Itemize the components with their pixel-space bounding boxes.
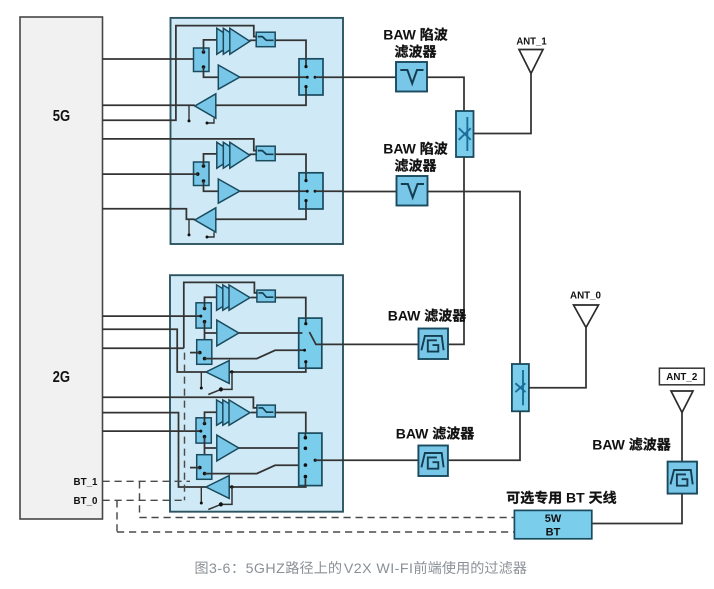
svg-text:BT_0: BT_0	[74, 496, 99, 507]
dashed riser BT_1 to BT box	[139, 481, 141, 517]
wire antenna switch TX out	[323, 190, 343, 192]
dashed wire BT_0 feed to 5W box	[117, 531, 514, 533]
wire antenna switch RX to LNA	[216, 95, 306, 105]
svg-text:BT_1: BT_1	[74, 477, 99, 488]
svg-text:ANT_0: ANT_0	[570, 290, 601, 301]
2G FEM module box U2	[170, 275, 343, 512]
svg-text:ANT_2: ANT_2	[666, 372, 697, 383]
wire switch to PA input	[204, 154, 218, 166]
svg-text:BAW: BAW	[383, 27, 420, 43]
power amplifier PA (3-stage)	[217, 142, 237, 168]
2G PA input switch upper	[196, 303, 211, 328]
BAW notch filter FL2	[397, 176, 428, 206]
2G PA input switch upper	[196, 418, 211, 443]
LNA amplifier	[195, 208, 216, 232]
wire LNA to antenna switch RX	[229, 368, 306, 372]
antenna ANT_2 label box	[659, 368, 704, 385]
wire bypass switch to antenna switch	[275, 40, 306, 59]
wire ANT1 switch lower to BAW filter 1	[448, 157, 464, 344]
svg-text:BAW: BAW	[396, 425, 433, 441]
wire switch to driver amp	[204, 67, 219, 77]
driver amplifier	[218, 65, 240, 89]
wire 5G-A to notch filter 1	[343, 76, 396, 78]
wire switch to PA input	[204, 40, 218, 52]
wire PA out to bypass switch	[251, 297, 257, 299]
wire 2G bypass-A with riser	[103, 347, 184, 349]
LNA amplifier	[195, 94, 216, 118]
svg-text:BAW: BAW	[388, 308, 425, 324]
wire antenna switch RX to LNA	[216, 209, 306, 219]
bias stub with contact	[208, 118, 214, 123]
wire ANT0 switch to antenna	[529, 328, 586, 388]
wire 5G bypass-B rail	[103, 139, 257, 151]
wire PA out to bypass switch	[250, 39, 257, 41]
control switch lower	[197, 340, 212, 365]
antenna switch ANT0 (SPDT)	[512, 364, 529, 411]
wire cross-feed to antenna switch	[205, 465, 305, 473]
bias tail and contact lever	[223, 372, 232, 389]
2G driver amplifier	[217, 435, 239, 461]
wire control stub	[190, 467, 200, 469]
2G power amplifier (3-stage)	[217, 400, 238, 425]
dashed wire BT_0	[103, 499, 187, 501]
svg-text:5W: 5W	[545, 513, 562, 525]
wire antenna switch TX out	[323, 76, 343, 78]
antenna switch SP3T	[299, 173, 323, 209]
2G power amplifier (3-stage)	[217, 285, 238, 310]
svg-text:2G: 2G	[53, 369, 70, 386]
driver amplifier	[218, 179, 240, 203]
wire driver amp to antenna switch	[239, 447, 305, 449]
wire 2G-B to BAW filter 2	[343, 459, 419, 461]
5G group B circuits	[0, 0, 1, 1]
wire driver amp to antenna switch	[239, 332, 299, 334]
wire switch to PA input	[205, 297, 218, 308]
figure caption	[196, 562, 208, 574]
wire bypass switch to antenna switch	[275, 298, 306, 319]
dashed control riser in 2G module	[184, 353, 186, 501]
wire 5G-B to notch filter 2	[343, 191, 397, 193]
BAW notch filter FL1	[396, 62, 427, 92]
label BAW notch filter 2 line2	[395, 159, 436, 172]
wire 5G TX-A input	[103, 58, 194, 60]
ground stub with contact	[188, 105, 190, 119]
wire to driver amp	[204, 437, 206, 460]
dashed wire BT_1 feed to 5W box	[140, 517, 515, 519]
wire 5G bypass-A with riser	[103, 26, 257, 121]
wire control stub	[190, 352, 200, 354]
antenna switch SP3T	[299, 59, 323, 95]
wire 5G RX-B with jog	[103, 209, 195, 220]
ground stub with contact	[200, 372, 202, 387]
2G LNA amplifier	[206, 361, 229, 384]
label optional BT antenna	[507, 491, 561, 504]
transceiver block 5G/2G	[20, 17, 103, 519]
svg-text:5GHZ: 5GHZ	[246, 561, 286, 577]
wire 2G-A to BAW filter 1	[343, 343, 419, 345]
wire 5G TX-B input	[103, 173, 198, 175]
wire ANT1 switch to antenna	[474, 74, 532, 134]
wire PA out to bypass switch	[250, 153, 257, 155]
2G group A circuits	[0, 0, 1, 1]
wire PA out to bypass switch	[251, 412, 257, 414]
wire driver amp to antenna switch	[240, 76, 299, 78]
BAW filter FL4	[418, 446, 448, 477]
dashed wire BT_1	[103, 480, 191, 482]
svg-text:5G: 5G	[53, 108, 70, 125]
2G LNA amplifier	[206, 476, 229, 499]
ground stub with contact	[188, 219, 190, 233]
wire notch filter 2 to ANT0 switch	[428, 192, 521, 365]
input switch SWA	[194, 48, 210, 72]
wire 5G RX-A output	[103, 104, 195, 106]
wire switch to PA input	[205, 412, 218, 423]
wire cross-feed to antenna switch	[205, 350, 299, 358]
wire ANT0 switch lower to BAW filter 2	[448, 411, 520, 460]
dashed riser BT_0 to BT box	[116, 500, 118, 532]
wire 2G RX-B with jog	[103, 413, 207, 487]
wire input contact	[196, 315, 200, 317]
ground stub with contact	[200, 487, 202, 502]
BT antenna box 5W/BT	[514, 510, 591, 538]
svg-text:BT: BT	[546, 526, 561, 538]
wire 2G TX-A input	[103, 315, 197, 317]
wire 2G RX-A with jog	[103, 329, 207, 372]
5G FEM module box U1	[171, 18, 344, 244]
wire bypass switch to antenna switch	[275, 413, 306, 434]
input switch SWB	[194, 162, 210, 186]
BAW filter FL3	[419, 329, 449, 360]
wire ANT_2 to BAW filter 3	[681, 413, 683, 462]
2G driver amplifier	[217, 320, 239, 346]
BAW filter FL5	[668, 462, 697, 494]
wire to driver amp	[204, 322, 206, 345]
wire input contact	[196, 430, 200, 432]
bypass switch box	[257, 405, 275, 417]
svg-text:BAW: BAW	[592, 436, 629, 452]
wire BAW filter 3 to BT antenna box	[592, 494, 682, 524]
svg-text:BAW: BAW	[383, 141, 420, 157]
bypass switch box	[256, 146, 275, 161]
power amplifier PA (3-stage)	[217, 28, 237, 54]
wire driver amp to antenna switch	[240, 190, 299, 192]
svg-text:3-6: 3-6	[209, 561, 231, 577]
2G group B circuits	[0, 0, 1, 1]
bias tail and contact lever	[223, 487, 232, 504]
bias stub with contact	[208, 232, 214, 237]
label BAW notch filter 1 line2	[395, 45, 436, 58]
svg-text:V2X WI-FI: V2X WI-FI	[344, 561, 413, 577]
wire 2G bypass-B rail	[103, 397, 257, 408]
wire switch to driver amp	[204, 181, 219, 191]
bypass switch box	[256, 32, 275, 47]
wire bypass switch to antenna switch	[275, 154, 306, 173]
wire LNA to antenna switch RX	[229, 483, 306, 487]
antenna switch ANT1 (SPDT)	[456, 111, 474, 157]
2G antenna switch A	[299, 318, 322, 368]
svg-text:ANT_1: ANT_1	[516, 37, 547, 48]
wire 2G TX-B input	[103, 430, 197, 432]
5G group A circuits	[0, 0, 1, 1]
wire notch filter 1 to diversity switch	[427, 77, 464, 111]
2G antenna switch B	[299, 433, 322, 486]
bypass switch box	[257, 290, 275, 302]
svg-text:BT: BT	[562, 490, 588, 506]
antenna ANT_2	[671, 391, 693, 413]
control switch lower	[197, 455, 212, 480]
